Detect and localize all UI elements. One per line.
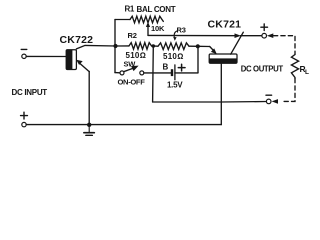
- arrowhead pointing left at + terminal: [267, 33, 273, 38]
- wire: input minus to CK722 base: [26, 55, 66, 57]
- potentiometer R1 wiper arrow: [146, 22, 150, 36]
- label SW: [124, 60, 137, 69]
- plus sign (output): [261, 24, 268, 31]
- plus sign (battery): [178, 64, 185, 71]
- CK721 emitter lead from node with arrow (PNP, into bar): [198, 46, 217, 54]
- resistor R3 zigzag 510 ohm: [158, 43, 189, 50]
- svg-text:ON-OFF: ON-OFF: [118, 78, 146, 87]
- label R2: [128, 31, 137, 40]
- label CK722: [60, 34, 94, 46]
- dashed wire: RL bottom to minus output corner: [281, 79, 295, 102]
- wire: collector junction to + output terminal: [241, 35, 262, 37]
- transistor Q2 CK721 body: [209, 54, 237, 63]
- label 1.5V: [167, 81, 183, 90]
- arrowhead on wiper line at collector junction: [235, 33, 242, 38]
- label R1: [125, 5, 135, 14]
- wire: emitter down to ground rail: [88, 71, 90, 124]
- label BAL CONT: [137, 5, 176, 14]
- wire: R2/R3 junction down through battery row to output row corner: [152, 46, 155, 102]
- svg-text:B: B: [163, 63, 169, 72]
- label CK721: [208, 19, 242, 31]
- CK721 base lead down to bottom rail corner: [220, 63, 222, 124]
- svg-text:CK721: CK721: [208, 19, 242, 31]
- svg-text:510Ω: 510Ω: [163, 52, 184, 61]
- wire: top-left corner vertical from R1 down to switch row: [114, 20, 116, 73]
- node dot: collector of CK722 / R2 left: [113, 44, 117, 48]
- node dot: R3 right / battery top / CK721 emitter: [196, 44, 200, 48]
- DC input minus terminal: [22, 54, 26, 58]
- svg-text:BAL CONT: BAL CONT: [137, 5, 176, 14]
- node dot: emitter/ground junction: [87, 123, 91, 127]
- dashed wire: + terminal to top right corner: [274, 36, 296, 55]
- svg-text:SW: SW: [124, 60, 137, 69]
- transistor Q1 CK722 body: [66, 50, 76, 70]
- switch left contact: [120, 71, 124, 75]
- label B: [163, 63, 169, 72]
- arrowhead pointing left at minus terminal: [272, 99, 278, 104]
- ground symbol: [88, 127, 90, 132]
- wire: R3 right to node dot: [189, 45, 198, 47]
- svg-text:R3: R3: [177, 26, 186, 35]
- svg-text:R2: R2: [128, 31, 137, 40]
- switch lever with arrow: [124, 66, 139, 72]
- svg-text:DC INPUT: DC INPUT: [12, 88, 48, 97]
- label 10K: [151, 24, 165, 33]
- wire: output minus line from corner to terminal: [153, 101, 267, 104]
- svg-text:DC OUTPUT: DC OUTPUT: [241, 65, 284, 74]
- label RL: [300, 64, 310, 76]
- wire: dot to R2 zigzag: [116, 45, 130, 47]
- label R3 with leader: [177, 26, 186, 35]
- label 510 ohm under R2: [126, 51, 147, 60]
- svg-text:1.5V: 1.5V: [167, 81, 183, 90]
- switch right contact: [140, 71, 144, 75]
- svg-text:L: L: [305, 69, 309, 76]
- wire: battery to corner up to R3-right node: [175, 72, 198, 74]
- wire: wiper line across to CK721 collector and DC output +: [148, 34, 239, 36]
- minus sign (output): [266, 94, 272, 96]
- load resistor RL zigzag (dashed external load): [291, 55, 298, 79]
- CK722 emitter lead with arrow (PNP, into bar): [76, 60, 89, 72]
- resistor R2 zigzag 510 ohm: [129, 43, 152, 50]
- node dot: R2/R3 junction: [152, 44, 156, 48]
- battery B 1.5V: short thick negative plate: [171, 69, 173, 76]
- wire: node down to battery row corner: [197, 46, 199, 73]
- label DC OUTPUT: [241, 65, 284, 74]
- DC output plus terminal: [262, 33, 267, 38]
- battery long thin positive plate: [174, 65, 176, 80]
- resistor R1 zigzag (10K BAL CONT): [130, 16, 163, 23]
- DC input plus terminal: [22, 122, 26, 126]
- switch SW: corner to left contact: [115, 72, 120, 74]
- CK721 collector lead up to output line: [231, 32, 244, 54]
- label ON-OFF: [118, 78, 146, 87]
- DC output minus terminal: [266, 99, 271, 104]
- plus sign (input): [21, 112, 28, 119]
- minus sign (input): [21, 48, 27, 50]
- wire: R1 top lead from corner to zigzag: [115, 19, 130, 21]
- label DC INPUT: [12, 88, 48, 97]
- wire: switch to battery: [144, 72, 171, 74]
- svg-text:R1: R1: [125, 5, 135, 14]
- label 510 ohm under R3: [163, 52, 184, 61]
- CK722 collector lead to node: [76, 45, 115, 49]
- wire: bottom rail: [26, 124, 221, 126]
- wire: junction to R3: [152, 45, 159, 47]
- svg-text:CK722: CK722: [60, 34, 94, 46]
- svg-text:10K: 10K: [151, 24, 165, 33]
